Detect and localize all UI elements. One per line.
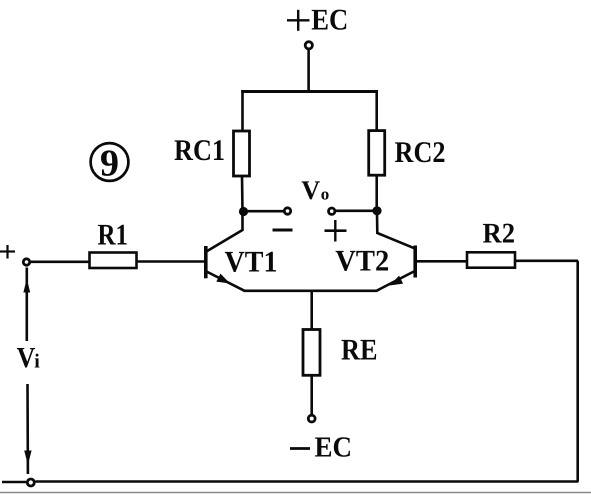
svg-text:R2: R2 <box>483 219 516 250</box>
svg-text:9: 9 <box>100 143 119 185</box>
svg-text:VT2: VT2 <box>335 245 389 278</box>
svg-text:o: o <box>321 185 330 204</box>
svg-text:EC: EC <box>311 4 348 37</box>
svg-text:V: V <box>301 175 320 205</box>
svg-text:VT1: VT1 <box>225 246 278 279</box>
svg-text:RE: RE <box>341 334 378 367</box>
svg-text:V: V <box>17 342 36 374</box>
svg-text:RC1: RC1 <box>174 134 225 167</box>
svg-text:R1: R1 <box>98 218 129 251</box>
svg-text:RC2: RC2 <box>395 136 446 169</box>
svg-text:i: i <box>34 351 40 373</box>
svg-text:EC: EC <box>315 432 353 464</box>
